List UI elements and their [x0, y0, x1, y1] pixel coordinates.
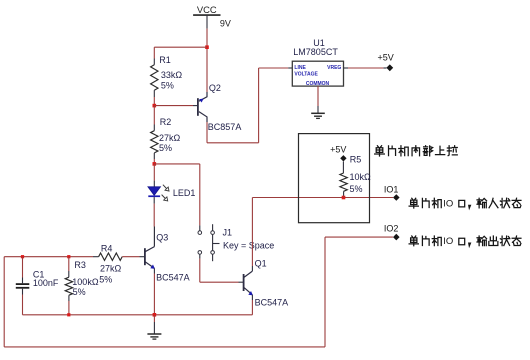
svg-text:27kΩ: 27kΩ	[159, 133, 181, 143]
resistor R4	[99, 253, 123, 260]
wire ground rail	[23, 314, 253, 316]
wire Q1 collector to IO1 net	[251, 266, 253, 271]
svg-text:Q2: Q2	[209, 83, 221, 93]
svg-text:VCC: VCC	[197, 4, 217, 15]
wire Q3 emitter to ground rail	[153, 268, 155, 273]
svg-text:5%: 5%	[350, 184, 363, 194]
svg-text:BC547A: BC547A	[156, 273, 190, 283]
svg-text:LED1: LED1	[173, 188, 196, 198]
svg-text:27kΩ: 27kΩ	[100, 264, 122, 274]
annotation box MCU internal pullup	[299, 134, 370, 223]
svg-text:R5: R5	[350, 155, 362, 165]
svg-text:Key = Space: Key = Space	[223, 240, 274, 250]
svg-text:J1: J1	[223, 228, 233, 238]
resistor R3	[68, 257, 70, 271]
svg-text:+5V: +5V	[330, 144, 346, 154]
node junction R2/LED1/J1	[153, 162, 157, 166]
wire Q1 emitter to ground rail	[251, 295, 253, 300]
node junction C1 top	[21, 255, 24, 258]
wire Q2 base	[154, 105, 193, 107]
svg-text:VREG: VREG	[327, 65, 341, 71]
wire U1 common to ground	[317, 86, 319, 106]
svg-text:LM7805CT: LM7805CT	[293, 47, 338, 57]
svg-text:Q3: Q3	[156, 232, 168, 242]
node junction Q3 emitter/ground	[153, 313, 157, 317]
svg-text:+5V: +5V	[378, 53, 394, 63]
svg-text:BC547A: BC547A	[255, 298, 289, 308]
svg-text:IO: IO	[443, 236, 453, 247]
power VCC symbol	[193, 14, 220, 16]
svg-text:IO1: IO1	[384, 184, 399, 194]
node IO2 connector	[393, 234, 400, 241]
svg-text:5%: 5%	[73, 287, 86, 297]
svg-text:R4: R4	[101, 244, 113, 254]
transistor Q3 BC547A	[144, 248, 146, 265]
svg-text:100nF: 100nF	[33, 278, 59, 288]
svg-text:R2: R2	[160, 117, 172, 127]
svg-text:Q1: Q1	[255, 259, 267, 269]
label MCU internal pull-up (Chinese)	[375, 146, 385, 156]
svg-text:5%: 5%	[161, 80, 174, 90]
node junction R1/R2/Q2-base	[153, 104, 157, 108]
ground main	[153, 315, 155, 322]
svg-text:IO2: IO2	[384, 224, 399, 234]
svg-text:10kΩ: 10kΩ	[350, 172, 372, 182]
wire R4 to Q3 base	[122, 256, 139, 258]
node +5V output connector	[386, 64, 393, 71]
wire IO2 net	[325, 236, 393, 238]
transistor Q1 BC547A	[243, 274, 245, 291]
svg-text:BC857A: BC857A	[208, 122, 242, 132]
wire VCC stem	[206, 15, 208, 29]
svg-text:IO: IO	[443, 198, 453, 209]
svg-text:9V: 9V	[220, 18, 231, 28]
wire J1 to Q1 base	[199, 254, 201, 258]
switch J1 Key=Space	[198, 231, 202, 235]
node junction R3 bottom	[67, 313, 70, 316]
wire to LED1	[153, 164, 155, 181]
wire LED1 to Q3 collector	[153, 197, 155, 204]
node junction R5/IO1	[342, 196, 346, 200]
LED1 emission arrows	[163, 185, 167, 189]
ground below U1	[311, 112, 325, 114]
svg-text:100kΩ: 100kΩ	[72, 277, 99, 287]
svg-text:VOLTAGE: VOLTAGE	[294, 71, 318, 77]
svg-text:33kΩ: 33kΩ	[161, 70, 183, 80]
node junction R3 top	[67, 255, 70, 258]
wire junction to J1	[154, 163, 200, 165]
label IO2 description (Chinese)	[409, 236, 418, 246]
wire Q2 collector to U1 input	[206, 122, 208, 143]
wire U1 output to +5V	[344, 67, 349, 69]
svg-text:R1: R1	[159, 55, 171, 65]
svg-text:5%: 5%	[159, 143, 172, 153]
voltage regulator U1 LM7805CT	[292, 61, 343, 86]
svg-text:R3: R3	[74, 260, 86, 270]
svg-text:LINE: LINE	[294, 65, 306, 71]
resistor R2	[151, 131, 158, 153]
LED D1 LED1	[148, 187, 161, 196]
capacitor C1	[22, 257, 24, 278]
label IO1 description (Chinese)	[409, 198, 418, 208]
svg-text:5%: 5%	[99, 275, 112, 285]
node junction VCC/R1	[205, 45, 209, 49]
resistor R1	[151, 65, 158, 90]
transistor Q2 BC857A	[197, 98, 199, 116]
node +5V connector at R5	[340, 155, 346, 161]
resistor R5	[342, 162, 344, 174]
wire IO1 net	[252, 197, 393, 199]
wire VCC to R1	[154, 46, 207, 48]
node IO1 connector	[393, 194, 400, 201]
wire input rail	[4, 256, 93, 258]
